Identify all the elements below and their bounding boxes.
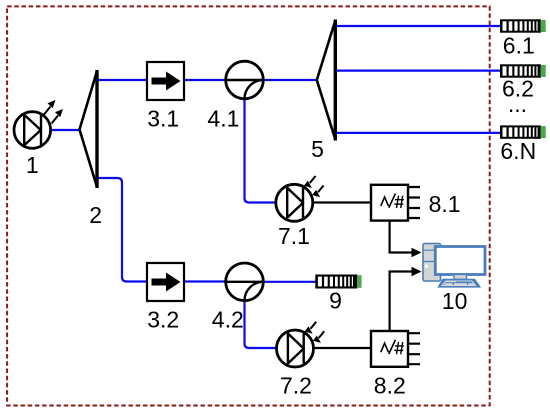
wire splitter 2 to isolator 3.1 xyxy=(97,79,147,81)
ADC 8.1 xyxy=(371,185,420,221)
svg-text:3.2: 3.2 xyxy=(147,307,179,333)
wire splitter 5 to grating 6.2 xyxy=(336,69,501,71)
wire photodetector 7.1 to ADC 8.1 xyxy=(312,201,371,203)
circulator 4.1 xyxy=(226,61,264,99)
svg-text:9: 9 xyxy=(329,288,342,314)
circulator 4.2 xyxy=(226,263,264,301)
wire splitter 5 to grating 6.N xyxy=(336,132,501,134)
fiber grating 6.2 xyxy=(500,64,546,77)
svg-text:4.2: 4.2 xyxy=(212,307,244,333)
svg-text:6.1: 6.1 xyxy=(503,33,535,59)
svg-text:6.N: 6.N xyxy=(500,138,536,164)
svg-text:...: ... xyxy=(508,91,527,117)
isolator 3.1 xyxy=(147,62,184,100)
photodetector 7.1 xyxy=(276,176,324,221)
svg-text:4.1: 4.1 xyxy=(207,106,239,132)
wire circulator 4.2 to photodetector 7.2 xyxy=(245,299,278,348)
splitter 2 xyxy=(80,70,98,188)
svg-text:7.2: 7.2 xyxy=(280,373,312,399)
wire splitter 2 to isolator 3.2 xyxy=(97,178,147,282)
wire splitter 5 to grating 6.1 xyxy=(336,25,501,27)
svg-text:3.1: 3.1 xyxy=(147,106,179,132)
isolator 3.2 xyxy=(147,263,184,301)
wire circulator 4.2 to grating 9 xyxy=(263,281,316,283)
photodetector 7.2 xyxy=(277,322,325,367)
wire ADC 8.1 to computer 10 xyxy=(390,221,422,258)
svg-text:2: 2 xyxy=(89,202,102,228)
wire photodetector 7.2 to ADC 8.2 xyxy=(313,347,371,349)
svg-text:1: 1 xyxy=(26,152,39,178)
ADC 8.2 xyxy=(371,331,420,367)
computer 10 xyxy=(423,244,485,288)
svg-text:7.1: 7.1 xyxy=(278,223,310,249)
fiber grating 6.N xyxy=(500,125,546,138)
wire isolator 3.2 to circulator 4.2 xyxy=(185,280,226,282)
wire circulator 4.1 to splitter 5 xyxy=(263,79,316,81)
svg-text:8.1: 8.1 xyxy=(429,191,461,217)
fiber grating 6.1 xyxy=(500,19,546,32)
wire ADC 8.2 to computer 10 xyxy=(390,267,422,331)
splitter 5 xyxy=(317,20,336,141)
svg-text:10: 10 xyxy=(442,288,468,314)
fiber grating 9 xyxy=(315,275,361,289)
wire isolator 3.1 to circulator 4.1 xyxy=(184,79,226,81)
svg-text:8.2: 8.2 xyxy=(374,373,406,399)
wire circulator 4.1 to photodetector 7.1 xyxy=(245,97,277,203)
svg-text:5: 5 xyxy=(311,136,324,162)
wire source 1 to splitter 2 xyxy=(50,129,80,131)
laser source 1 xyxy=(14,100,63,148)
